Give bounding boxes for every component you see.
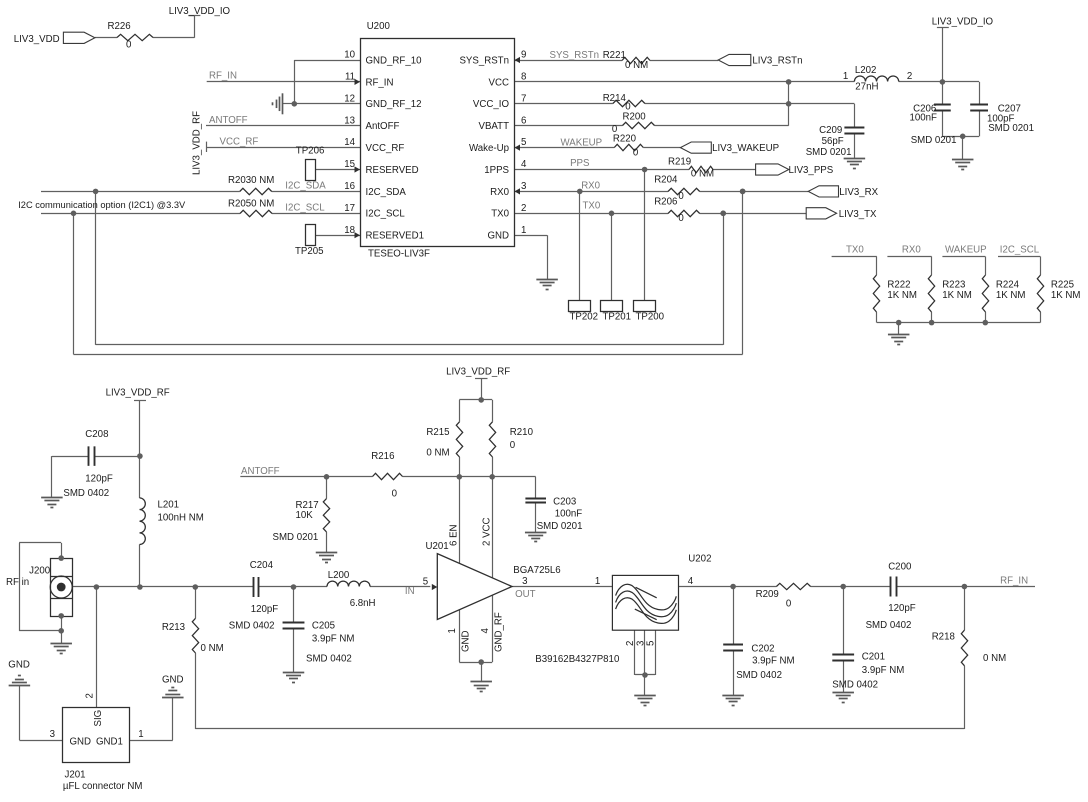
svg-text:PPS: PPS — [570, 158, 590, 169]
svg-text:R200: R200 — [623, 111, 647, 122]
svg-text:B39162B4327P810: B39162B4327P810 — [535, 654, 620, 665]
svg-text:GND: GND — [461, 630, 472, 652]
svg-text:GND: GND — [8, 659, 30, 670]
svg-text:0 NM: 0 NM — [983, 653, 1006, 664]
svg-text:C202: C202 — [751, 643, 774, 654]
svg-text:R2030 NM: R2030 NM — [228, 175, 274, 186]
svg-text:13: 13 — [344, 115, 355, 126]
svg-text:U201: U201 — [426, 541, 449, 552]
svg-text:SIG: SIG — [93, 710, 104, 727]
svg-text:GND1: GND1 — [96, 736, 123, 747]
svg-text:LIV3_VDD_IO: LIV3_VDD_IO — [932, 17, 994, 28]
svg-text:SYS_RSTn: SYS_RSTn — [550, 50, 600, 61]
svg-text:7: 7 — [521, 93, 526, 104]
svg-text:L201: L201 — [158, 500, 180, 511]
svg-text:R206: R206 — [654, 196, 677, 207]
svg-text:6 EN: 6 EN — [449, 524, 460, 546]
svg-text:LIV3_VDD_IO: LIV3_VDD_IO — [169, 6, 231, 17]
svg-text:U202: U202 — [688, 553, 711, 564]
svg-text:0: 0 — [392, 488, 398, 499]
svg-text:120pF: 120pF — [888, 603, 916, 614]
svg-text:SMD 0402: SMD 0402 — [832, 680, 878, 691]
svg-text:GND: GND — [162, 674, 184, 685]
svg-text:I2C_SCL: I2C_SCL — [285, 202, 325, 213]
svg-text:R221: R221 — [603, 50, 626, 61]
svg-text:ANTOFF: ANTOFF — [241, 466, 280, 477]
svg-text:15: 15 — [344, 159, 355, 170]
svg-text:GND_RF_12: GND_RF_12 — [366, 99, 422, 110]
svg-text:VCC_RF: VCC_RF — [366, 143, 405, 154]
svg-text:8: 8 — [521, 72, 526, 83]
svg-text:3: 3 — [522, 576, 527, 587]
svg-text:R210: R210 — [510, 427, 534, 438]
svg-text:WAKEUP: WAKEUP — [561, 137, 603, 148]
svg-text:VBATT: VBATT — [479, 121, 510, 132]
svg-text:6: 6 — [521, 115, 526, 126]
svg-text:SMD 0402: SMD 0402 — [63, 488, 109, 499]
svg-text:VCC_IO: VCC_IO — [473, 99, 510, 110]
svg-text:SMD 0402: SMD 0402 — [866, 620, 912, 631]
svg-text:I2C communication option (I2C1: I2C communication option (I2C1) @3.3V — [18, 200, 186, 210]
svg-text:SMD 0402: SMD 0402 — [736, 670, 782, 681]
svg-text:1: 1 — [595, 576, 600, 587]
svg-text:17: 17 — [344, 203, 355, 214]
svg-text:LIV3_VDD_RF: LIV3_VDD_RF — [192, 111, 203, 175]
svg-text:TESEO-LIV3F: TESEO-LIV3F — [368, 249, 430, 260]
svg-text:IN: IN — [405, 586, 415, 597]
svg-text:2: 2 — [521, 203, 526, 214]
svg-text:R216: R216 — [371, 451, 394, 462]
svg-text:R209: R209 — [756, 589, 779, 600]
svg-text:SMD 0201: SMD 0201 — [911, 135, 957, 146]
svg-text:4: 4 — [480, 628, 491, 634]
svg-text:0: 0 — [786, 599, 792, 610]
svg-text:14: 14 — [344, 137, 355, 148]
svg-text:RX0: RX0 — [902, 244, 921, 255]
svg-text:RX0: RX0 — [581, 181, 600, 192]
svg-text:LIV3_WAKEUP: LIV3_WAKEUP — [712, 143, 779, 154]
svg-text:µFL connector NM: µFL connector NM — [63, 781, 143, 792]
svg-text:0: 0 — [678, 213, 684, 224]
svg-text:VCC_RF: VCC_RF — [220, 136, 259, 147]
svg-text:LIV3_PPS: LIV3_PPS — [789, 165, 834, 176]
svg-text:R222: R222 — [887, 280, 910, 291]
svg-text:1: 1 — [521, 225, 526, 236]
svg-text:9: 9 — [521, 50, 526, 61]
svg-text:1K NM: 1K NM — [942, 290, 972, 301]
svg-text:LIV3_RX: LIV3_RX — [839, 187, 878, 198]
svg-text:18: 18 — [344, 225, 355, 236]
svg-text:C204: C204 — [250, 560, 274, 571]
svg-text:L202: L202 — [855, 65, 877, 76]
svg-text:J201: J201 — [65, 770, 86, 781]
svg-text:ANTOFF: ANTOFF — [209, 115, 248, 126]
svg-text:1: 1 — [447, 628, 458, 633]
svg-text:1K NM: 1K NM — [1051, 290, 1081, 301]
svg-text:LIV3_TX: LIV3_TX — [839, 209, 877, 220]
svg-text:11: 11 — [345, 72, 355, 83]
svg-text:0: 0 — [510, 440, 516, 451]
svg-text:RF_IN: RF_IN — [366, 77, 394, 88]
svg-text:LIV3_VDD_RF: LIV3_VDD_RF — [446, 366, 510, 377]
svg-text:16: 16 — [344, 181, 355, 192]
svg-text:RF in: RF in — [6, 577, 29, 588]
svg-text:RESERVED: RESERVED — [366, 165, 419, 176]
svg-text:3.9pF NM: 3.9pF NM — [312, 634, 355, 645]
svg-text:R220: R220 — [613, 133, 637, 144]
svg-text:4: 4 — [688, 576, 694, 587]
svg-text:5: 5 — [423, 577, 428, 588]
svg-text:RX0: RX0 — [490, 187, 509, 198]
svg-text:TP205: TP205 — [295, 246, 324, 257]
svg-text:12: 12 — [344, 93, 355, 104]
svg-text:100nF: 100nF — [555, 509, 583, 520]
svg-text:0 NM: 0 NM — [201, 643, 224, 654]
svg-text:R215: R215 — [426, 427, 449, 438]
svg-text:GND_RF_10: GND_RF_10 — [366, 55, 423, 66]
svg-text:U200: U200 — [367, 21, 391, 32]
svg-text:I2C_SCL: I2C_SCL — [366, 209, 406, 220]
svg-text:SMD 0201: SMD 0201 — [537, 521, 583, 532]
svg-text:0 NM: 0 NM — [691, 169, 714, 180]
svg-text:GND: GND — [487, 231, 509, 242]
svg-text:LIV3_RSTn: LIV3_RSTn — [752, 56, 802, 67]
svg-text:I2C_SDA: I2C_SDA — [366, 187, 407, 198]
svg-text:SMD 0402: SMD 0402 — [306, 654, 352, 665]
svg-text:0: 0 — [126, 40, 132, 51]
svg-text:6.8nH: 6.8nH — [350, 598, 376, 609]
svg-text:AntOFF: AntOFF — [366, 121, 400, 132]
svg-text:4: 4 — [521, 159, 527, 170]
svg-text:3.9pF NM: 3.9pF NM — [752, 656, 795, 667]
svg-text:I2C_SCL: I2C_SCL — [1000, 244, 1040, 255]
svg-text:L200: L200 — [328, 570, 350, 581]
svg-text:TP206: TP206 — [296, 146, 325, 157]
svg-text:R2050 NM: R2050 NM — [228, 199, 274, 210]
svg-text:1PPS: 1PPS — [484, 165, 509, 176]
svg-text:100nH NM: 100nH NM — [158, 512, 204, 523]
svg-text:RF_IN: RF_IN — [1000, 576, 1028, 587]
svg-text:C208: C208 — [85, 429, 108, 440]
svg-text:GND: GND — [70, 736, 92, 747]
svg-text:LIV3_VDD: LIV3_VDD — [14, 34, 60, 45]
svg-text:R218: R218 — [932, 631, 955, 642]
svg-text:2: 2 — [85, 693, 96, 698]
svg-text:C201: C201 — [862, 652, 885, 663]
svg-text:C205: C205 — [312, 621, 335, 632]
svg-text:3: 3 — [50, 729, 55, 740]
svg-text:R204: R204 — [654, 174, 678, 185]
svg-text:TP200: TP200 — [636, 312, 665, 323]
svg-text:R214: R214 — [603, 93, 627, 104]
svg-text:56pF: 56pF — [822, 136, 844, 147]
svg-text:J200: J200 — [29, 566, 51, 577]
svg-text:R213: R213 — [162, 622, 185, 633]
svg-text:2: 2 — [907, 71, 912, 82]
svg-text:1: 1 — [138, 729, 143, 740]
svg-text:0 NM: 0 NM — [426, 448, 449, 459]
svg-text:R224: R224 — [996, 280, 1020, 291]
svg-text:WAKEUP: WAKEUP — [945, 244, 987, 255]
svg-text:C203: C203 — [553, 497, 576, 508]
svg-text:TP201: TP201 — [603, 312, 632, 323]
svg-text:I2C_SDA: I2C_SDA — [285, 181, 326, 192]
svg-text:3.9pF NM: 3.9pF NM — [862, 665, 905, 676]
svg-text:5: 5 — [646, 641, 657, 646]
svg-text:Wake-Up: Wake-Up — [469, 143, 509, 154]
svg-text:RESERVED1: RESERVED1 — [366, 231, 425, 242]
svg-text:0 NM: 0 NM — [625, 60, 648, 71]
svg-text:TP202: TP202 — [570, 312, 599, 323]
svg-text:SYS_RSTn: SYS_RSTn — [459, 55, 509, 66]
svg-text:27nH: 27nH — [855, 82, 878, 93]
svg-text:C200: C200 — [888, 562, 912, 573]
svg-text:1K NM: 1K NM — [887, 290, 917, 301]
svg-text:VCC: VCC — [489, 77, 509, 88]
svg-text:R223: R223 — [942, 280, 965, 291]
svg-text:RF_IN: RF_IN — [209, 71, 237, 82]
svg-text:120pF: 120pF — [251, 604, 279, 615]
svg-text:TX0: TX0 — [491, 209, 509, 220]
svg-text:LIV3_VDD_RF: LIV3_VDD_RF — [106, 387, 170, 398]
svg-text:SMD 0402: SMD 0402 — [229, 621, 275, 632]
svg-text:0: 0 — [678, 191, 684, 202]
svg-text:SMD 0201: SMD 0201 — [988, 123, 1034, 134]
svg-text:SMD 0201: SMD 0201 — [806, 147, 852, 158]
svg-text:10K: 10K — [296, 510, 314, 521]
svg-text:2 VCC: 2 VCC — [482, 517, 493, 546]
svg-text:TX0: TX0 — [846, 244, 864, 255]
svg-text:C209: C209 — [819, 125, 842, 136]
svg-text:5: 5 — [521, 137, 526, 148]
svg-text:R225: R225 — [1051, 280, 1074, 291]
svg-text:R226: R226 — [108, 21, 131, 32]
svg-text:SMD 0201: SMD 0201 — [273, 532, 319, 543]
svg-text:TX0: TX0 — [583, 201, 601, 212]
svg-text:0: 0 — [633, 148, 639, 159]
svg-text:BGA725L6: BGA725L6 — [513, 565, 560, 576]
svg-text:100nF: 100nF — [910, 112, 938, 123]
svg-text:120pF: 120pF — [85, 474, 113, 485]
svg-text:3: 3 — [521, 181, 526, 192]
svg-text:10: 10 — [344, 50, 355, 61]
svg-text:R219: R219 — [668, 156, 691, 167]
svg-text:1K NM: 1K NM — [996, 290, 1026, 301]
svg-text:GND_RF: GND_RF — [493, 612, 504, 652]
svg-text:OUT: OUT — [515, 589, 536, 600]
svg-text:1: 1 — [843, 71, 848, 82]
